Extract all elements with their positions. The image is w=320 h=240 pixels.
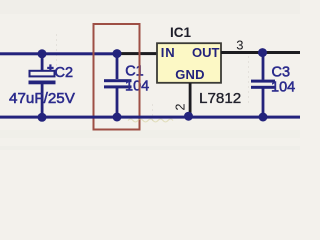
wire: top rail left segment (0, 52, 121, 55)
svg-text:104: 104 (125, 79, 149, 95)
IC1 pin 1 (IN) wire (121, 52, 157, 55)
label C2 (55, 65, 74, 81)
pin number 2 (rotated) (174, 104, 188, 111)
node: junction C2 top (38, 49, 47, 58)
svg-text:C3: C3 (272, 65, 291, 81)
capacitor C3 bottom plate (251, 86, 275, 89)
wire: C3 bottom stem (262, 88, 265, 117)
capacitor C2 bottom plate (29, 81, 56, 85)
svg-text:2: 2 (174, 104, 188, 111)
grid artifact lines (57, 34, 249, 122)
capacitor C1 bottom plate (104, 85, 132, 88)
svg-text:C2: C2 (55, 65, 74, 81)
svg-text:IC1: IC1 (170, 25, 192, 40)
svg-text:L7812: L7812 (199, 90, 241, 107)
IC1 pin name IN (161, 45, 176, 60)
highlight red box around C1 (94, 24, 140, 130)
op-amp/regulator IC1 body (157, 43, 221, 83)
label L7812 part type (199, 90, 241, 107)
IC1 pin name GND (175, 67, 205, 82)
wire: C1 top stem (116, 53, 119, 79)
wire: C3 top stem (262, 53, 265, 80)
label C3 (272, 65, 291, 81)
capacitor C1 top plate (104, 79, 132, 82)
node: junction C1 top (113, 49, 122, 58)
IC1 pin 2 (GND) wire (189, 83, 192, 114)
svg-text:3: 3 (236, 38, 243, 53)
wire: bottom rail (0, 116, 300, 119)
wire: C1 bottom stem (116, 88, 119, 117)
node: junction C2 bottom (38, 113, 47, 122)
C2 plus sign (47, 64, 53, 71)
svg-text:IN: IN (161, 45, 176, 60)
label C1 value 104 (125, 79, 149, 95)
label C1 (125, 64, 144, 80)
pin number 3 (236, 38, 243, 53)
wire: C2 top stem (41, 54, 44, 71)
label C3 value 104 (271, 80, 295, 96)
svg-text:OUT: OUT (192, 45, 220, 60)
node: junction C3 top (258, 48, 267, 57)
IC1 pin name OUT (192, 45, 220, 60)
label IC1 designator (170, 25, 192, 40)
capacitor C2 (electrolytic) top plate (30, 71, 55, 77)
svg-text:GND: GND (175, 67, 205, 82)
artifact squiggle under rail (128, 119, 173, 122)
svg-text:104: 104 (271, 80, 295, 96)
IC1 pin 3 (OUT) wire (221, 51, 300, 54)
label C2 value 47uF/25V (9, 90, 76, 107)
svg-text:47uF/25V: 47uF/25V (9, 90, 76, 107)
capacitor C3 top plate (251, 80, 275, 83)
svg-text:C1: C1 (125, 64, 144, 80)
wire: C2 bottom stem (41, 84, 44, 117)
node: junction C3 bottom (259, 113, 268, 122)
node: junction GND bottom (184, 112, 193, 121)
node: junction C1 bottom (113, 113, 122, 122)
